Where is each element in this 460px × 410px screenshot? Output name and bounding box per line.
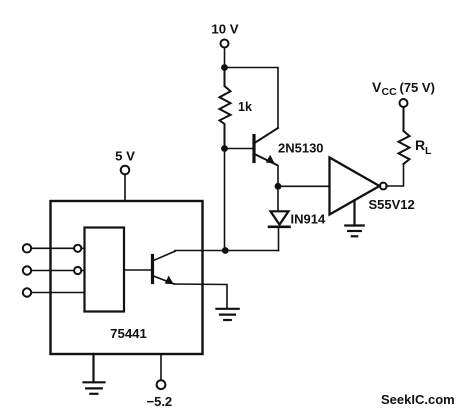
svg-text:(75 V): (75 V) [400,80,435,95]
input terminal 3 [23,288,85,296]
wire junction to inverter input [278,185,330,187]
svg-text:SeekIC.com: SeekIC.com [381,392,455,407]
wire inverter output to RL [386,164,403,186]
svg-text:L: L [425,145,432,157]
wire Q2 emitter to ground [174,284,227,309]
wire Q1 emitter down to diode [277,165,279,211]
inner block of 75441 [85,228,125,312]
svg-text:S55V12: S55V12 [369,197,415,212]
svg-text:75441: 75441 [110,326,147,341]
ground (75441 box) [84,354,105,394]
resistor R1 1k [220,68,252,149]
IC U2 75441 package box [51,201,203,354]
svg-text:10 V: 10 V [211,22,238,37]
node junction below 10V terminal [221,64,228,71]
diode D1 IN914 [269,211,326,227]
transistor Q2 (internal, 75441) [124,251,175,284]
svg-text:2N5130: 2N5130 [278,141,324,156]
node base junction (resistor bottom) [221,145,228,152]
terminal −5.2 [147,354,173,409]
terminal 10 V [211,22,238,48]
terminal VCC (75 V) [372,79,435,107]
svg-text:V: V [372,79,382,95]
input terminal 1 [23,244,85,252]
svg-text:−5.2: −5.2 [147,394,173,409]
svg-text:IN914: IN914 [291,212,326,227]
wire base junction to Q1 base [225,148,253,150]
ground (Q2 emitter) [216,309,238,320]
svg-text:CC: CC [382,86,398,98]
wire junction right and down to Q1 collector [225,68,279,129]
wire 10V terminal down to junction [224,48,226,68]
wire base junction down to bottom rail [224,149,226,251]
op-amp U1 inverter S55V12 [330,158,415,215]
wire bottom rail (Q2 collector to diode) [175,250,279,252]
svg-text:R: R [415,137,425,153]
node emitter/diode/inverter junction [275,183,282,190]
node bottom rail junction [222,247,229,254]
input terminal 2 [23,266,85,274]
svg-text:1k: 1k [238,100,252,114]
ground (inverter) [345,200,363,236]
svg-text:5 V: 5 V [115,149,135,164]
terminal 5 V [115,149,135,202]
resistor R2 RL [399,108,433,165]
wire diode cathode down to bottom rail [278,227,280,251]
transistor Q1 2N5130 [254,128,324,165]
